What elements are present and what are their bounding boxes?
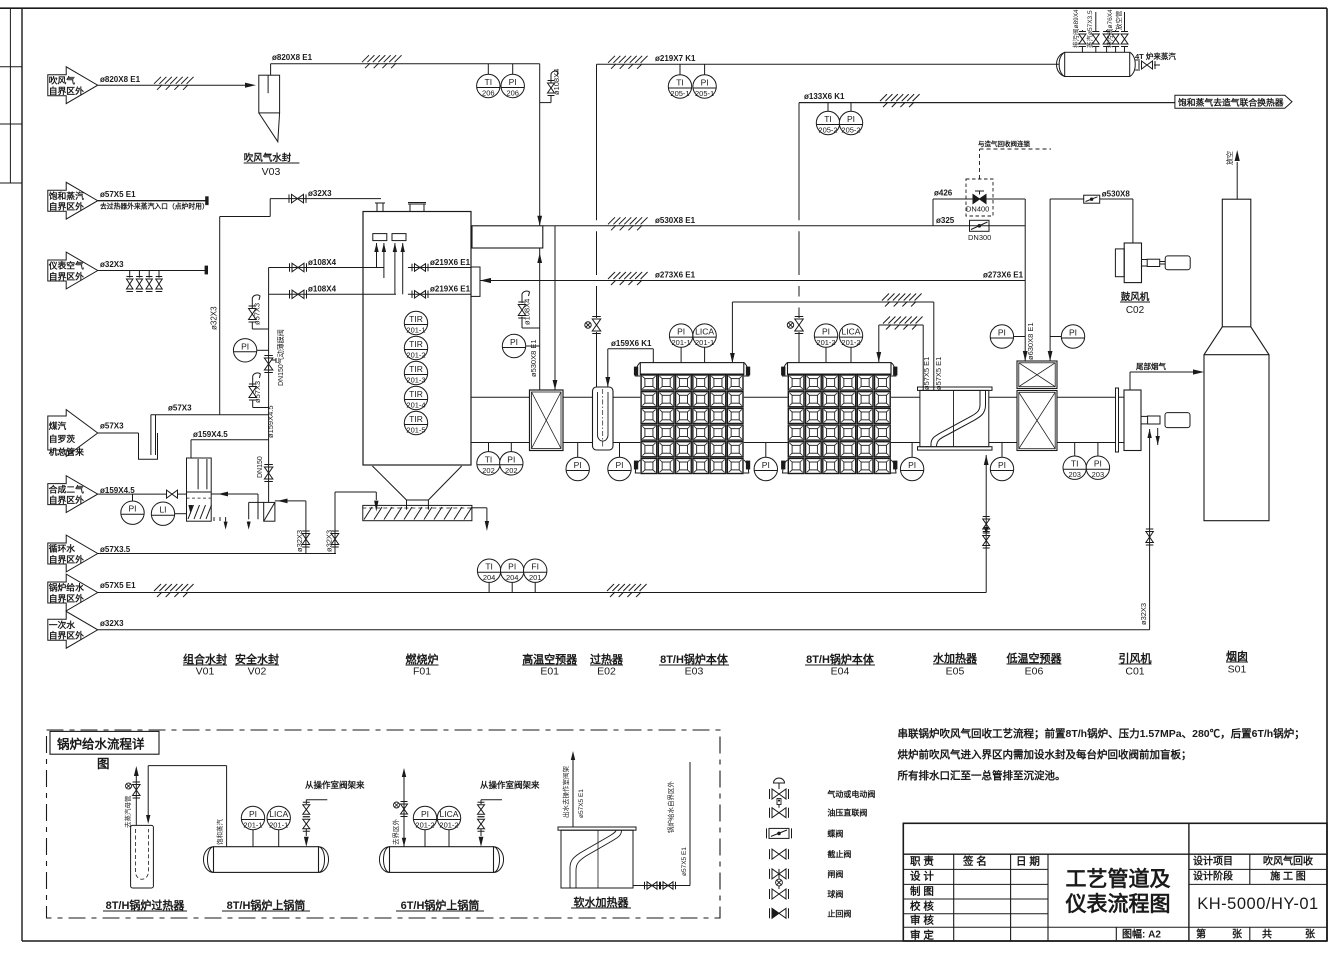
svg-text:所有排水口汇至一总管排至沉淀池。: 所有排水口汇至一总管排至沉淀池。 [898, 769, 1066, 782]
svg-text:PI: PI [241, 341, 249, 351]
svg-text:LICA: LICA [842, 327, 861, 337]
svg-text:设 计: 设 计 [910, 870, 934, 883]
svg-text:LICA: LICA [269, 809, 288, 819]
svg-text:204: 204 [506, 573, 519, 582]
svg-text:去界区外: 去界区外 [391, 819, 400, 846]
svg-text:排污阀ø76X4: 排污阀ø76X4 [1105, 9, 1114, 48]
svg-text:ø57X3: ø57X3 [100, 422, 124, 431]
svg-text:TIR: TIR [409, 364, 423, 374]
svg-text:8T/H锅炉本体: 8T/H锅炉本体 [806, 652, 875, 666]
svg-text:LI: LI [159, 505, 166, 515]
svg-text:闸阀: 闸阀 [827, 869, 843, 879]
svg-text:施 工 图: 施 工 图 [1270, 870, 1306, 883]
svg-text:TIR: TIR [409, 314, 423, 324]
svg-text:E03: E03 [685, 666, 704, 678]
svg-text:201-1: 201-1 [269, 821, 288, 830]
svg-text:201-2: 201-2 [439, 821, 458, 830]
svg-text:锅炉给水流程详: 锅炉给水流程详 [57, 737, 145, 752]
svg-text:PI: PI [998, 460, 1006, 470]
svg-text:一次水: 一次水 [49, 619, 76, 630]
svg-text:ø57X5 E1: ø57X5 E1 [922, 357, 931, 390]
svg-text:ø57X3.5: ø57X3.5 [100, 545, 131, 554]
svg-text:PI: PI [998, 328, 1006, 338]
svg-text:放空: 放空 [1225, 151, 1234, 165]
svg-text:LICA: LICA [440, 809, 459, 819]
svg-text:ø108X4: ø108X4 [523, 299, 532, 325]
svg-text:ø57X3: ø57X3 [253, 381, 262, 403]
svg-text:TI: TI [485, 77, 493, 87]
svg-text:截止阀: 截止阀 [827, 849, 851, 859]
svg-text:烘炉前吹风气进入界区内需加设水封及每台炉回收阀前加盲板；: 烘炉前吹风气进入界区内需加设水封及每台炉回收阀前加盲板； [898, 748, 1192, 761]
svg-text:PI: PI [510, 337, 518, 347]
svg-text:图幅: A2: 图幅: A2 [1122, 928, 1161, 941]
svg-text:职 责: 职 责 [910, 855, 934, 868]
svg-text:ø530X8 E1: ø530X8 E1 [655, 216, 696, 225]
svg-text:204: 204 [483, 573, 496, 582]
svg-text:201-2: 201-2 [816, 338, 835, 347]
svg-text:ø108X4: ø108X4 [552, 69, 561, 95]
svg-text:蒸汽ø57X3.5: 蒸汽ø57X3.5 [1085, 10, 1094, 48]
svg-text:高温空预器: 高温空预器 [522, 652, 578, 666]
svg-text:ø159X4.5: ø159X4.5 [193, 430, 228, 439]
svg-text:V03: V03 [262, 166, 281, 178]
svg-text:放空管: 放空管 [1114, 10, 1123, 30]
svg-text:自界区外: 自界区外 [49, 494, 84, 505]
svg-text:PI: PI [1094, 459, 1102, 469]
svg-text:球阀: 球阀 [827, 889, 843, 899]
svg-text:TIR: TIR [409, 389, 423, 399]
svg-text:设计阶段: 设计阶段 [1193, 870, 1233, 883]
svg-text:机总管来: 机总管来 [49, 446, 84, 457]
svg-text:ø108X4: ø108X4 [308, 285, 337, 294]
svg-text:FI: FI [531, 562, 539, 572]
svg-text:ø32X3: ø32X3 [295, 530, 304, 552]
svg-text:201-3: 201-3 [406, 376, 425, 385]
svg-text:尾部烟气: 尾部烟气 [1135, 361, 1166, 371]
svg-text:日 期: 日 期 [1016, 855, 1040, 868]
svg-text:审 定: 审 定 [910, 929, 934, 942]
svg-text:设计项目: 设计项目 [1193, 855, 1233, 868]
svg-text:206: 206 [482, 89, 495, 98]
svg-text:自界区外: 自界区外 [49, 630, 84, 641]
svg-text:ø32X3: ø32X3 [100, 619, 124, 628]
svg-text:E05: E05 [946, 666, 965, 678]
svg-text:仪表流程图: 仪表流程图 [1065, 892, 1171, 916]
svg-text:ø133X6 K1: ø133X6 K1 [804, 92, 845, 101]
svg-text:201-1: 201-1 [243, 821, 262, 830]
svg-text:201-4: 201-4 [406, 401, 425, 410]
svg-text:205-1: 205-1 [670, 89, 689, 98]
svg-text:PI: PI [822, 327, 830, 337]
svg-text:自界区外: 自界区外 [49, 592, 84, 603]
svg-text:ø159X4.5: ø159X4.5 [266, 405, 275, 438]
svg-text:ø426: ø426 [934, 189, 953, 198]
svg-text:排污阀ø89X4: 排污阀ø89X4 [1071, 9, 1080, 48]
svg-text:203: 203 [1068, 470, 1081, 479]
svg-text:ø820X8 E1: ø820X8 E1 [272, 53, 313, 62]
svg-text:PI: PI [762, 460, 770, 470]
svg-text:V02: V02 [248, 666, 267, 678]
svg-text:去蒸汽母管: 去蒸汽母管 [123, 795, 132, 828]
svg-text:从操作室阀架来: 从操作室阀架来 [305, 780, 365, 790]
svg-text:TI: TI [676, 78, 684, 88]
svg-text:8T/H锅炉本体: 8T/H锅炉本体 [660, 652, 729, 666]
svg-text:DN150气动薄膜阀: DN150气动薄膜阀 [276, 329, 285, 386]
svg-text:低温空预器: 低温空预器 [1006, 651, 1063, 665]
svg-text:LICA: LICA [695, 327, 714, 337]
svg-text:循环水: 循环水 [49, 543, 76, 554]
svg-text:8T/H锅炉过热器: 8T/H锅炉过热器 [106, 898, 186, 912]
svg-text:软水加热器: 软水加热器 [574, 895, 630, 909]
svg-text:201-2: 201-2 [415, 821, 434, 830]
svg-text:PI: PI [508, 562, 516, 572]
svg-text:PI: PI [509, 77, 517, 87]
svg-text:烟囱: 烟囱 [1226, 649, 1248, 663]
svg-text:TIR: TIR [409, 339, 423, 349]
svg-text:PI: PI [507, 454, 515, 464]
svg-text:8T/H锅炉上锅筒: 8T/H锅炉上锅筒 [227, 898, 306, 912]
svg-text:201-1: 201-1 [406, 326, 425, 335]
svg-text:PI: PI [1069, 328, 1077, 338]
svg-text:ø273X6 E1: ø273X6 E1 [983, 271, 1024, 280]
svg-text:TI: TI [485, 454, 493, 464]
svg-text:PI: PI [421, 809, 429, 819]
svg-text:TI: TI [1071, 459, 1079, 469]
svg-text:TI: TI [824, 114, 832, 124]
svg-text:205-2: 205-2 [841, 126, 860, 135]
svg-text:ø32X3: ø32X3 [1139, 603, 1148, 625]
svg-text:从操作室阀架来: 从操作室阀架来 [480, 780, 540, 790]
svg-text:PI: PI [574, 460, 582, 470]
svg-text:ø57X5 E1: ø57X5 E1 [681, 847, 688, 876]
svg-text:引风机: 引风机 [1119, 651, 1152, 665]
svg-text:201-1: 201-1 [695, 338, 714, 347]
svg-text:C02: C02 [1126, 305, 1145, 316]
svg-text:ø32X3: ø32X3 [324, 530, 333, 552]
svg-text:张: 张 [1305, 928, 1316, 941]
svg-text:TI: TI [485, 562, 493, 572]
svg-text:ø108X4: ø108X4 [308, 258, 337, 267]
svg-text:ø325: ø325 [936, 216, 955, 225]
svg-text:ø219X7 K1: ø219X7 K1 [655, 54, 696, 63]
svg-text:签 名: 签 名 [962, 855, 987, 868]
svg-text:E02: E02 [597, 666, 616, 678]
svg-text:饱和蒸气去造气联合换热器: 饱和蒸气去造气联合换热器 [1178, 97, 1284, 108]
svg-text:ø159X6 K1: ø159X6 K1 [611, 339, 652, 348]
svg-text:F01: F01 [413, 666, 431, 678]
svg-text:图: 图 [97, 757, 110, 771]
svg-text:锅炉给水: 锅炉给水 [49, 582, 84, 593]
svg-text:4T 炉来蒸汽: 4T 炉来蒸汽 [1135, 51, 1176, 61]
svg-text:蝶阀: 蝶阀 [827, 828, 843, 838]
svg-text:燃烧炉: 燃烧炉 [405, 652, 439, 666]
svg-text:ø57X3: ø57X3 [253, 303, 262, 325]
svg-text:油压直联阀: 油压直联阀 [827, 808, 867, 818]
svg-text:煤汽: 煤汽 [49, 420, 67, 431]
svg-text:去过热器外来蒸汽入口（点炉时用）: 去过热器外来蒸汽入口（点炉时用） [100, 202, 209, 211]
svg-text:自罗茨: 自罗茨 [49, 433, 76, 444]
svg-text:安全水封: 安全水封 [235, 652, 279, 666]
svg-text:出水去操作室阀架: 出水去操作室阀架 [561, 766, 570, 819]
svg-text:201: 201 [529, 573, 542, 582]
svg-text:张: 张 [1232, 928, 1243, 941]
svg-text:仪表空气: 仪表空气 [48, 260, 84, 271]
svg-text:ø57X5 E1: ø57X5 E1 [100, 190, 136, 199]
svg-text:206: 206 [506, 89, 519, 98]
svg-text:203: 203 [1092, 470, 1105, 479]
svg-text:自界区外: 自界区外 [49, 85, 84, 96]
svg-text:合成二气: 合成二气 [49, 483, 84, 494]
svg-text:V01: V01 [196, 666, 215, 678]
svg-text:PI: PI [847, 114, 855, 124]
svg-text:ø32X3: ø32X3 [100, 260, 124, 269]
svg-text:锅炉给水自界区外: 锅炉给水自界区外 [666, 781, 675, 834]
svg-text:S01: S01 [1228, 664, 1247, 676]
svg-text:201-2: 201-2 [841, 338, 860, 347]
svg-text:DN400: DN400 [966, 205, 989, 214]
svg-text:组合水封: 组合水封 [183, 652, 227, 666]
svg-text:气动或电动阀: 气动或电动阀 [826, 789, 875, 799]
svg-text:ø57X5 E1: ø57X5 E1 [934, 357, 943, 390]
svg-text:205-2: 205-2 [818, 126, 837, 135]
svg-text:DN300: DN300 [968, 233, 991, 242]
svg-text:201-1: 201-1 [672, 338, 691, 347]
svg-text:校 核: 校 核 [910, 900, 934, 913]
svg-text:吹风气水封: 吹风气水封 [244, 152, 292, 164]
svg-text:饱和蒸汽: 饱和蒸汽 [215, 819, 224, 846]
svg-text:201-2: 201-2 [406, 351, 425, 360]
svg-text:ø219X6 E1: ø219X6 E1 [430, 258, 471, 267]
svg-text:205-1: 205-1 [695, 89, 714, 98]
svg-text:PI: PI [615, 460, 623, 470]
svg-text:PI: PI [908, 460, 916, 470]
svg-text:202: 202 [505, 466, 518, 475]
svg-text:PI: PI [701, 78, 709, 88]
svg-text:工艺管道及: 工艺管道及 [1066, 867, 1172, 891]
svg-text:与造气回收阀连锁: 与造气回收阀连锁 [978, 139, 1031, 148]
svg-text:201-5: 201-5 [406, 426, 425, 435]
svg-text:202: 202 [482, 466, 495, 475]
svg-text:E01: E01 [540, 666, 559, 678]
svg-text:ø219X6 E1: ø219X6 E1 [430, 285, 471, 294]
svg-text:ø57X5 E1: ø57X5 E1 [100, 581, 136, 590]
svg-text:ø530X8: ø530X8 [1102, 190, 1131, 199]
svg-text:水加热器: 水加热器 [933, 651, 978, 665]
svg-text:E06: E06 [1025, 666, 1044, 678]
svg-text:共: 共 [1262, 928, 1272, 941]
svg-text:KH-5000/HY-01: KH-5000/HY-01 [1197, 895, 1318, 913]
svg-text:止回阀: 止回阀 [827, 908, 851, 918]
svg-text:饱和蒸汽: 饱和蒸汽 [49, 190, 84, 201]
svg-text:ø57X5 E1: ø57X5 E1 [578, 789, 585, 818]
svg-text:TIR: TIR [409, 414, 423, 424]
svg-text:ø32X3: ø32X3 [308, 189, 332, 198]
svg-text:PI: PI [677, 327, 685, 337]
svg-text:E04: E04 [831, 666, 850, 678]
svg-text:自界区外: 自界区外 [49, 270, 84, 281]
svg-text:鼓风机: 鼓风机 [1121, 291, 1150, 303]
svg-text:自界区外: 自界区外 [49, 553, 84, 564]
svg-text:PI: PI [249, 809, 257, 819]
svg-text:制 图: 制 图 [910, 885, 934, 898]
svg-text:C01: C01 [1125, 666, 1144, 678]
svg-text:ø32X3: ø32X3 [210, 306, 219, 330]
svg-text:ø273X6 E1: ø273X6 E1 [655, 271, 696, 280]
svg-text:吹风气回收: 吹风气回收 [1263, 855, 1313, 868]
svg-text:ø57X3: ø57X3 [168, 404, 192, 413]
svg-text:自界区外: 自界区外 [49, 201, 84, 212]
svg-text:串联锅炉吹风气回收工艺流程；前置8T/h锅炉、压力1.57M: 串联锅炉吹风气回收工艺流程；前置8T/h锅炉、压力1.57MPa、280℃，后置… [898, 727, 1305, 740]
svg-text:ø630X8 E1: ø630X8 E1 [1026, 322, 1035, 360]
svg-text:PI: PI [128, 504, 136, 514]
svg-text:ø820X8 E1: ø820X8 E1 [100, 75, 141, 84]
svg-text:6T/H锅炉上锅筒: 6T/H锅炉上锅筒 [401, 898, 480, 912]
svg-text:审 核: 审 核 [910, 914, 934, 927]
svg-text:吹风气: 吹风气 [49, 74, 76, 85]
svg-text:DN150: DN150 [257, 456, 264, 478]
svg-text:第: 第 [1196, 928, 1206, 941]
svg-text:ø530X8 E1: ø530X8 E1 [529, 339, 538, 377]
svg-text:过热器: 过热器 [590, 652, 624, 666]
